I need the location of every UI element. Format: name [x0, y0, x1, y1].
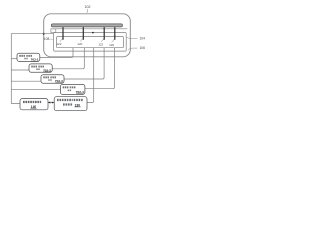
wire D — [64, 48, 104, 79]
cover bar — [51, 24, 122, 27]
box 702-3 — [41, 75, 64, 84]
arrow between 140 and 130 — [48, 102, 54, 104]
hook 1 — [60, 38, 63, 41]
wire left bus — [11, 34, 53, 104]
svg-text:102: 102 — [85, 5, 91, 9]
hook 4 — [112, 39, 115, 42]
svg-text:122: 122 — [98, 42, 103, 46]
node dot left — [43, 33, 45, 35]
leader 106 — [128, 48, 137, 50]
ledge cell — [51, 29, 56, 33]
device outline — [44, 14, 131, 57]
wire A — [40, 48, 73, 58]
box 702-2 — [29, 64, 52, 72]
svg-text:122: 122 — [56, 42, 61, 46]
hook 3 — [101, 39, 104, 42]
electrode 3 — [103, 27, 105, 40]
box 702-1 — [17, 53, 40, 61]
svg-text:104: 104 — [139, 36, 145, 40]
leader 102 — [87, 9, 88, 13]
hook 2 — [80, 38, 83, 41]
wire E — [85, 48, 115, 89]
layer line — [51, 28, 127, 30]
box 130 — [54, 97, 87, 111]
svg-text:120: 120 — [77, 42, 82, 46]
wire stub box3 — [11, 80, 41, 82]
box 702-4 — [60, 84, 85, 94]
svg-text:106: 106 — [139, 46, 145, 50]
wire C to controller — [87, 48, 94, 103]
electrode 2 — [82, 27, 84, 40]
sensor layer rect 104 — [54, 33, 127, 52]
leader 108 — [50, 38, 53, 40]
display layer rect 106 — [57, 37, 124, 48]
electrode 1 — [62, 27, 64, 40]
svg-text:120: 120 — [109, 43, 114, 47]
box 140 — [20, 99, 48, 110]
electrode 4 — [114, 27, 116, 40]
wire B — [52, 48, 84, 69]
wire stub box2 — [11, 69, 29, 71]
leader 104 — [127, 37, 138, 38]
wire stub box4 — [11, 88, 60, 90]
wire stub box1 — [11, 58, 17, 60]
node dot mid — [92, 32, 94, 34]
svg-text:108: 108 — [44, 37, 50, 41]
